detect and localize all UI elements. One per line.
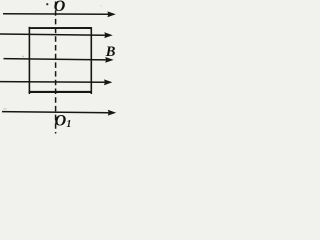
background [0, 0, 120, 135]
dashed axis O-O1 [55, 2, 57, 134]
field line 2 with arrow [0, 32, 113, 38]
field line 5 (bottom) with arrow [2, 110, 116, 116]
svg-text:O: O [55, 112, 67, 129]
field line 1 (top) with arrow [3, 11, 116, 17]
svg-text:1: 1 [66, 119, 71, 130]
svg-text:B: B [105, 44, 116, 60]
field line 4 with arrow [0, 79, 112, 85]
scan speckle dot [46, 3, 48, 5]
field line 3 (middle) with arrow [4, 57, 114, 63]
scan smudge faint [3, 108, 7, 110]
scan speckle faint [100, 5, 101, 6]
svg-text:O: O [54, 0, 66, 15]
rectangular loop [29, 27, 92, 94]
scan speckle faint [22, 56, 24, 58]
